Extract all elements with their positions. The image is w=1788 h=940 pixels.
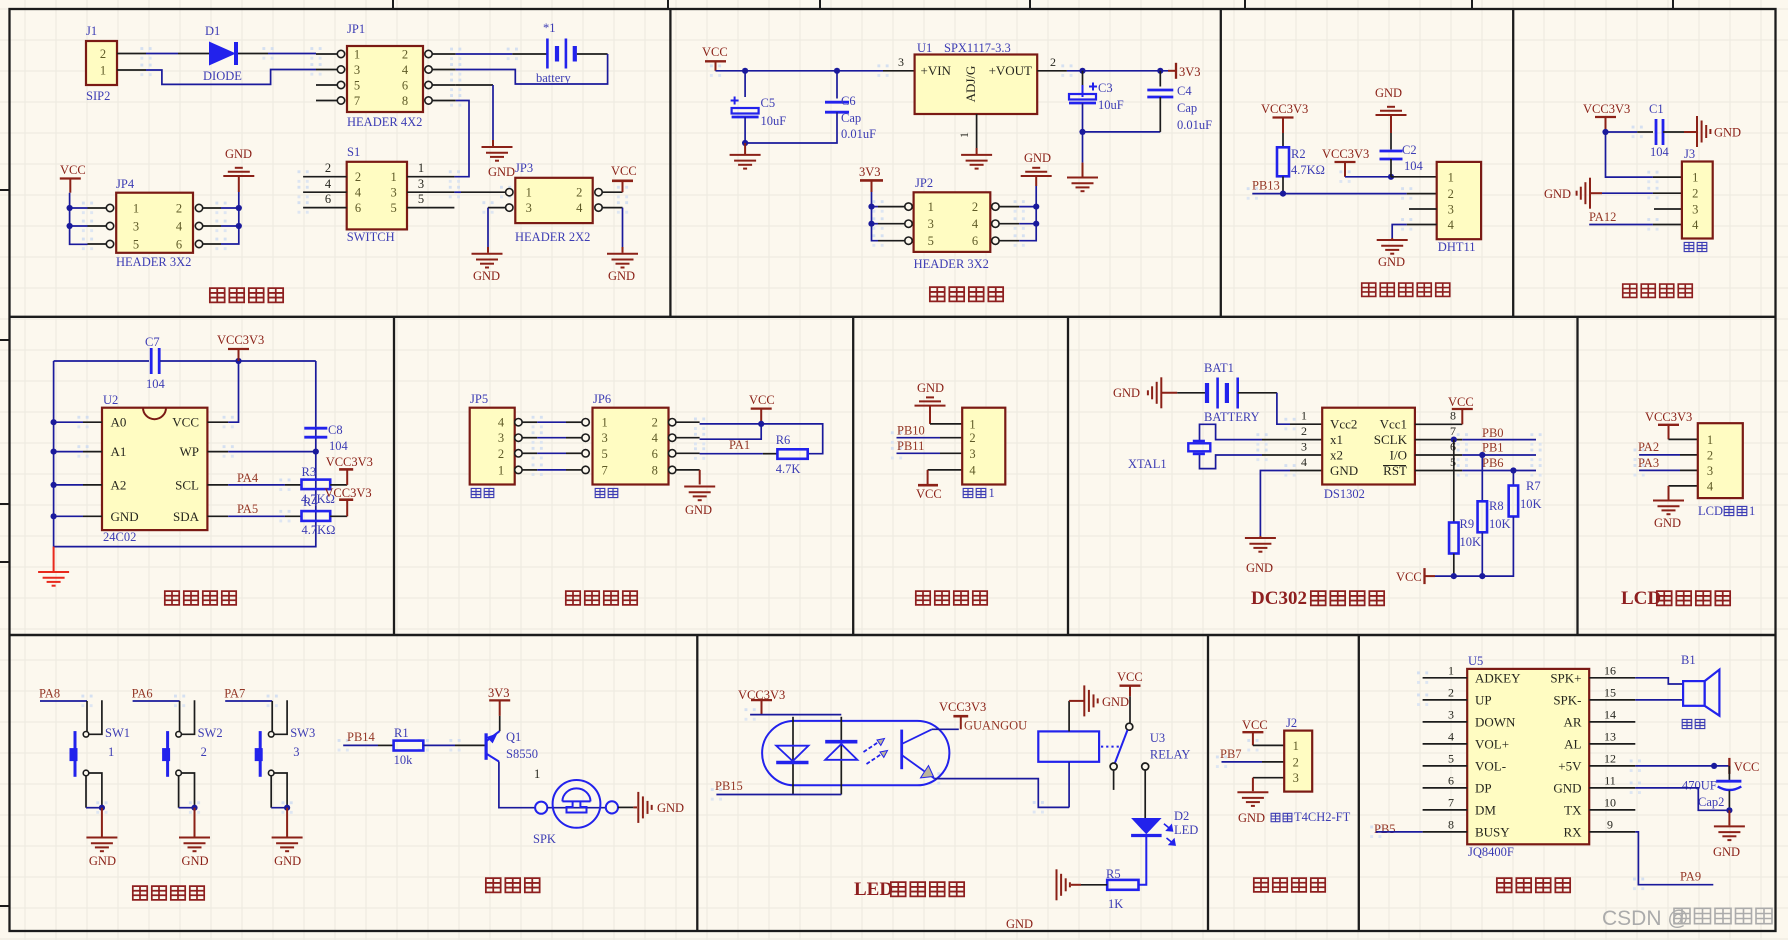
power 3V3 JP2 — [860, 180, 883, 192]
svg-text:3: 3 — [928, 217, 934, 231]
sheet border tick top — [667, 0, 669, 9]
svg-text:3: 3 — [601, 431, 607, 445]
wire C4 top — [1159, 71, 1161, 87]
svg-text:9: 9 — [1607, 817, 1613, 831]
svg-text:PB13: PB13 — [1252, 179, 1280, 193]
svg-text:DIODE: DIODE — [203, 69, 242, 83]
svg-text:RX: RX — [1563, 824, 1582, 839]
header JP1 left pin stubs — [316, 54, 337, 101]
svg-text:VCC3V3: VCC3V3 — [1583, 102, 1630, 116]
svg-text:x2: x2 — [1330, 447, 1343, 462]
wire PA3 LCD pin3 — [1639, 469, 1698, 471]
optocoupler diode 2 — [825, 742, 857, 760]
crystal XTAL1 — [1188, 441, 1210, 454]
svg-text:1: 1 — [498, 463, 504, 477]
module title 存储模块 — [165, 591, 236, 605]
resistor R1 — [394, 741, 424, 751]
optocoupler diode 1 — [776, 746, 808, 763]
svg-text:4: 4 — [1301, 455, 1307, 469]
switch SW3 pin1 lead — [274, 700, 287, 734]
svg-text:BATTERY: BATTERY — [1204, 410, 1260, 424]
svg-text:VCC3V3: VCC3V3 — [1322, 147, 1369, 161]
capacitor C4 — [1147, 90, 1173, 97]
power VCC JP6 — [751, 409, 772, 424]
svg-text:J3: J3 — [1684, 147, 1695, 161]
wire PA8 to switch — [40, 701, 87, 732]
wire right trunk — [54, 361, 316, 547]
wire LCD pin4 gnd — [1669, 486, 1698, 500]
switch SW1 pin2 lead — [89, 773, 102, 808]
led D2 — [1131, 818, 1162, 836]
svg-text:1: 1 — [1448, 170, 1454, 184]
junction SW2 — [191, 805, 197, 811]
svg-text:4: 4 — [576, 201, 583, 215]
relay U3 switch top contact — [1126, 723, 1133, 730]
svg-text:GND: GND — [1006, 917, 1033, 931]
power VCC relay — [1120, 686, 1141, 697]
resistor R7 — [1509, 486, 1519, 517]
svg-text:10K: 10K — [1520, 497, 1542, 511]
wire JP2.1 link — [872, 206, 879, 208]
svg-text:15: 15 — [1604, 685, 1616, 699]
svg-text:R3: R3 — [302, 465, 317, 479]
ground SW3 — [272, 838, 303, 852]
svg-text:PB7: PB7 — [1220, 747, 1242, 761]
connector J1 — [86, 41, 117, 85]
svg-text:2: 2 — [201, 745, 207, 759]
power VCC JP4 — [60, 179, 81, 193]
svg-text:+VOUT: +VOUT — [989, 63, 1032, 78]
svg-text:JP6: JP6 — [593, 392, 611, 406]
sheet border tick left — [0, 189, 10, 191]
wire LED to R5 — [1139, 836, 1147, 885]
svg-text:10uF: 10uF — [1098, 98, 1124, 112]
header JP5 circles — [515, 419, 522, 474]
svg-text:D1: D1 — [205, 24, 220, 38]
connector LCD pin numbers — [1707, 433, 1714, 494]
switch SW2 actuator — [162, 731, 170, 777]
svg-text:GND: GND — [1714, 126, 1741, 140]
ground BAT1 — [1148, 377, 1161, 408]
wire relay coil top gnd — [1068, 701, 1070, 732]
wire x2 stub — [1262, 454, 1322, 456]
wire cap2 bottom — [1728, 791, 1730, 811]
svg-text:GND: GND — [685, 503, 712, 517]
svg-text:VCC: VCC — [1396, 570, 1422, 584]
junction JP4 right 1 — [236, 205, 242, 211]
svg-text:4: 4 — [1692, 218, 1699, 232]
svg-text:4: 4 — [498, 416, 505, 430]
wire C3 gnd — [1082, 132, 1084, 177]
svg-text:4: 4 — [325, 177, 332, 191]
svg-text:SDA: SDA — [173, 509, 200, 524]
svg-text:SCL: SCL — [175, 477, 199, 492]
svg-text:DS1302: DS1302 — [1324, 487, 1365, 501]
svg-text:VOL+: VOL+ — [1475, 736, 1509, 751]
svg-text:2: 2 — [969, 431, 975, 445]
wire VCC rail tail — [1425, 575, 1436, 577]
svg-text:PB6: PB6 — [1482, 456, 1504, 470]
wire DHT pin1 stub — [1391, 176, 1437, 178]
capacitor C3 — [1069, 83, 1097, 104]
svg-text:2: 2 — [1448, 187, 1454, 201]
svg-text:4: 4 — [355, 186, 362, 200]
column divider r3b — [1207, 635, 1209, 931]
svg-text:WP: WP — [180, 444, 200, 459]
wire U2 WP pin — [207, 451, 315, 453]
svg-text:3V3: 3V3 — [859, 165, 881, 179]
svg-text:battery: battery — [536, 71, 571, 85]
wire JP4 right trunk — [221, 176, 239, 244]
wire J1.2 to D1 — [146, 53, 178, 55]
wire U1 VOUT stub — [1037, 70, 1067, 72]
svg-text:4: 4 — [1448, 729, 1454, 743]
header JP2 pin numbers — [928, 200, 979, 248]
wire R5 to gnd — [1071, 884, 1107, 886]
wire JP2.3 link — [872, 223, 879, 225]
svg-text:3: 3 — [418, 177, 424, 191]
svg-text:GND: GND — [1246, 561, 1273, 575]
svg-text:GUANGOU: GUANGOU — [964, 719, 1027, 733]
wire J1 pin2 stub — [117, 53, 146, 55]
svg-text:10K: 10K — [1489, 517, 1511, 531]
ground SW1 — [86, 838, 117, 852]
svg-text:DP: DP — [1475, 780, 1492, 795]
svg-text:PB0: PB0 — [1482, 426, 1504, 440]
header JP4 left circles — [106, 204, 113, 247]
switch S1 inner pin numbers — [355, 170, 397, 215]
svg-text:2: 2 — [100, 47, 106, 61]
svg-text:PB1: PB1 — [1482, 441, 1504, 455]
diode D1 — [209, 42, 236, 66]
svg-text:I/O: I/O — [1390, 447, 1407, 462]
svg-text:C4: C4 — [1177, 84, 1192, 98]
wire opto collector — [932, 728, 959, 730]
svg-text:2: 2 — [325, 161, 331, 175]
svg-text:PA9: PA9 — [1680, 870, 1701, 884]
regulator U1 pin names — [921, 63, 1033, 102]
connector J1 pin numbers — [100, 47, 106, 78]
svg-text:12: 12 — [1604, 751, 1616, 765]
wire SW3 to gnd — [271, 776, 287, 808]
header JP2 — [914, 192, 991, 252]
svg-text:GND: GND — [1713, 845, 1740, 859]
wire cap2 drop — [1728, 766, 1730, 781]
wire PB11 to BT pin3 — [897, 452, 963, 454]
wire JP6.8 gnd — [699, 470, 701, 485]
wire DHT gnd stem — [1391, 238, 1393, 239]
wire RX to PA9 — [1635, 832, 1713, 885]
power VCC voice — [1728, 758, 1730, 774]
ground C3 — [1067, 178, 1098, 192]
svg-text:GND: GND — [488, 165, 515, 179]
chip U5 right pin numbers — [1604, 663, 1616, 831]
wire C3 bottom — [1082, 103, 1084, 132]
wire R8 bottom — [1481, 533, 1483, 577]
capacitor C1 — [1656, 119, 1663, 145]
capacitor C2 — [1380, 151, 1403, 159]
svg-text:SW3: SW3 — [290, 726, 315, 740]
power VCC3V3 DHT — [1335, 162, 1356, 177]
junction gnd net — [1726, 807, 1732, 813]
svg-text:GND: GND — [274, 854, 301, 868]
wire GND pin net — [1635, 788, 1729, 810]
column divider r3c — [1358, 635, 1360, 931]
svg-text:3: 3 — [1448, 203, 1454, 217]
svg-text:GND: GND — [1553, 780, 1581, 795]
relay U3 linkage dots — [1101, 746, 1119, 748]
header JP2 left circles — [905, 203, 912, 244]
svg-text:R9: R9 — [1460, 517, 1475, 531]
wire SPK- to B1 — [1635, 699, 1683, 701]
header JP1 right pin circles — [425, 50, 432, 104]
wire relay coil bottom — [1068, 762, 1070, 808]
ground voice — [1714, 826, 1745, 840]
svg-text:13: 13 — [1604, 729, 1616, 743]
power 3V3 buck — [1175, 63, 1177, 79]
header JP1 right pin stubs — [432, 54, 456, 101]
ground J3 — [1577, 178, 1590, 209]
wire C2 top — [1390, 115, 1392, 150]
svg-text:U2: U2 — [103, 393, 118, 407]
svg-text:DOWN: DOWN — [1475, 714, 1516, 729]
svg-text:DHT11: DHT11 — [1438, 240, 1476, 254]
svg-text:4: 4 — [402, 63, 409, 77]
svg-text:1: 1 — [957, 132, 971, 138]
wire SPK internal — [547, 807, 606, 809]
optocoupler U4 body — [762, 721, 949, 785]
svg-text:1: 1 — [1749, 504, 1755, 518]
svg-text:HEADER 3X2: HEADER 3X2 — [116, 255, 191, 269]
power VCC3V3 R3 — [339, 469, 353, 485]
svg-text:GND: GND — [1375, 86, 1402, 100]
chip U2 notch — [143, 408, 166, 420]
svg-text:T4CH2-FT: T4CH2-FT — [1294, 810, 1351, 824]
wire opto emitter out — [935, 779, 1070, 808]
chip U5 right pin names — [1550, 670, 1582, 839]
power 3V3 Q1 — [489, 700, 510, 716]
wire relay gnd stem — [1069, 700, 1084, 702]
svg-text:XTAL1: XTAL1 — [1128, 457, 1167, 471]
wire JP1.2 to battery — [456, 53, 547, 55]
wire C1 to gnd — [1663, 131, 1696, 133]
svg-text:3V3: 3V3 — [1179, 65, 1201, 79]
svg-text:4: 4 — [652, 431, 659, 445]
module title 温湿度模块 — [1362, 283, 1450, 296]
svg-text:GND: GND — [1024, 151, 1051, 165]
power VCC J2 — [1242, 732, 1263, 745]
wire JP3.4 down — [622, 208, 624, 253]
wire JP6.2 net — [700, 424, 823, 454]
capacitor Cap2 — [1716, 781, 1741, 790]
transistor Q1 — [486, 731, 500, 761]
svg-text:SW1: SW1 — [105, 726, 130, 740]
svg-text:GND: GND — [182, 854, 209, 868]
svg-text:HEADER 4X2: HEADER 4X2 — [347, 115, 422, 129]
svg-text:2: 2 — [1301, 424, 1307, 438]
wire JP6.4 net — [700, 424, 762, 439]
wire SW1 gnd stem — [101, 808, 103, 837]
svg-text:VCC3V3: VCC3V3 — [217, 333, 264, 347]
svg-text:7: 7 — [1450, 424, 1456, 438]
column divider r1a — [669, 9, 671, 317]
capacitor C8 — [304, 428, 327, 437]
svg-text:VCC: VCC — [611, 164, 637, 178]
svg-text:3: 3 — [526, 201, 532, 215]
svg-text:24C02: 24C02 — [103, 530, 136, 544]
wires U2 left links — [54, 422, 83, 516]
svg-text:10uF: 10uF — [761, 114, 787, 128]
svg-text:JQ8400F: JQ8400F — [1468, 845, 1514, 859]
chip U5 left pin names — [1475, 670, 1521, 839]
sheet border tick left — [0, 905, 10, 907]
optocoupler phototransistor — [902, 729, 935, 778]
svg-text:VCC: VCC — [172, 415, 199, 430]
junction J3 vcc — [1602, 129, 1608, 135]
resistor R6 — [777, 449, 807, 459]
wire VCC3V3 to J3 pin1 — [1606, 132, 1653, 177]
ground JP2 right — [1021, 168, 1052, 176]
svg-text:PA4: PA4 — [237, 471, 259, 485]
header JP6 type label 心率 — [595, 488, 618, 497]
wire VCC to J2 pin1 — [1253, 744, 1284, 746]
svg-text:R1: R1 — [394, 726, 409, 740]
power VCC rail — [1423, 568, 1425, 584]
wire U1 gnd pin — [976, 114, 978, 155]
module title DC302时钟模块 — [1251, 588, 1384, 609]
ground DS1302 — [1245, 538, 1276, 552]
wire IO PB1 — [1415, 454, 1536, 456]
wire DHT pin4 stub — [1407, 224, 1437, 226]
svg-text:3: 3 — [293, 745, 299, 759]
resistor R8 — [1478, 501, 1488, 532]
wire JP1.8 to S1.1 — [454, 101, 469, 177]
sheet border tick top — [819, 0, 821, 9]
svg-text:C6: C6 — [841, 94, 856, 108]
junction JP2 left 2 — [868, 221, 874, 227]
svg-text:SPX1117-3.3: SPX1117-3.3 — [944, 41, 1011, 55]
wire SW1 to gnd — [86, 776, 102, 808]
junction R8 top — [1479, 452, 1485, 458]
sheet border tick top — [1471, 0, 1473, 9]
wire U1 VIN stub — [883, 70, 915, 72]
wire PB13 — [1252, 193, 1406, 195]
svg-text:1: 1 — [1692, 171, 1698, 185]
resistor R5 — [1107, 880, 1138, 890]
svg-text:5: 5 — [390, 201, 396, 215]
sheet border tick top — [1672, 0, 1674, 9]
svg-text:8: 8 — [1450, 409, 1456, 423]
header JP4 right stubs — [203, 208, 221, 244]
svg-text:VCC3V3: VCC3V3 — [326, 455, 373, 469]
svg-text:HEADER 3X2: HEADER 3X2 — [914, 257, 989, 271]
wire DHT11 pin2 stub — [1407, 193, 1437, 195]
svg-text:4.7KΩ: 4.7KΩ — [1291, 163, 1325, 177]
header JP1 — [347, 46, 423, 112]
svg-text:GND: GND — [111, 509, 139, 524]
svg-text:6: 6 — [325, 192, 331, 206]
svg-text:R2: R2 — [1291, 147, 1306, 161]
power VCC3V3 LCD — [1658, 425, 1679, 440]
svg-text:C2: C2 — [1402, 143, 1417, 157]
junction C6 top — [834, 68, 840, 74]
svg-text:6: 6 — [402, 79, 408, 93]
wire VCC to relay switch — [1129, 696, 1131, 723]
module title 降压模块 — [930, 287, 1003, 301]
svg-text:VCC: VCC — [702, 45, 728, 59]
junction JP2 left 1 — [868, 204, 874, 210]
svg-text:GND: GND — [225, 147, 252, 161]
wire DS1302 pin4 stub — [1290, 470, 1322, 472]
chip U2 — [102, 408, 207, 530]
svg-text:VCC: VCC — [1448, 395, 1474, 409]
svg-text:VCC: VCC — [1242, 718, 1268, 732]
wire C3 C4 bottom link — [1083, 131, 1161, 133]
wire C6 top — [836, 71, 838, 99]
junction rail R8 — [1479, 573, 1485, 579]
junction JP4 right 2 — [236, 223, 242, 229]
relay U3 switch arm — [1115, 730, 1128, 763]
ground C2 — [1376, 107, 1407, 115]
crystal XTAL1 wires top — [1200, 424, 1263, 441]
speaker B1 type label 喇叭 — [1682, 719, 1705, 728]
svg-text:HEADER 2X2: HEADER 2X2 — [515, 230, 590, 244]
wire PB7 to J2 pin2 — [1222, 761, 1285, 763]
switch S1 left stubs — [303, 177, 347, 208]
header JP6 left stubs — [566, 422, 582, 470]
svg-text:B1: B1 — [1681, 653, 1696, 667]
wires JP5 to JP6 — [537, 422, 566, 470]
wire x1 stub — [1262, 439, 1322, 441]
svg-text:1: 1 — [1707, 433, 1713, 447]
svg-text:1: 1 — [418, 161, 424, 175]
junction JP2 right 1 — [1033, 204, 1039, 210]
sheet border tick left — [0, 561, 10, 563]
svg-text:3: 3 — [969, 447, 975, 461]
svg-text:U5: U5 — [1468, 654, 1483, 668]
svg-text:GND: GND — [473, 269, 500, 283]
sheet border tick top — [392, 0, 394, 9]
switch SW1 bottom contact — [83, 770, 89, 776]
svg-text:VCC: VCC — [1734, 760, 1760, 774]
svg-text:ADJ/G: ADJ/G — [963, 66, 978, 103]
header JP5 — [470, 408, 515, 485]
svg-text:R8: R8 — [1489, 499, 1504, 513]
wire JP1.6 stub to gnd — [456, 85, 493, 146]
header JP6 — [593, 408, 669, 485]
relay U3 switch mid contact — [1110, 763, 1117, 770]
speaker B1 — [1683, 670, 1719, 716]
connector J2 — [1284, 731, 1312, 792]
chip DS1302 — [1322, 408, 1415, 485]
svg-text:6: 6 — [972, 234, 978, 248]
svg-text:SIP2: SIP2 — [86, 89, 110, 103]
wire R8 drop — [1481, 455, 1483, 501]
svg-text:5: 5 — [601, 447, 607, 461]
optocoupler led rail 1 — [792, 717, 794, 795]
svg-text:TX: TX — [1564, 802, 1582, 817]
header JP5 stubs — [522, 422, 537, 470]
svg-text:3: 3 — [390, 186, 396, 200]
power VCC3V3 J3 — [1595, 117, 1616, 132]
svg-text:JP2: JP2 — [915, 176, 933, 190]
header JP3 pin numbers — [526, 186, 584, 215]
resistor R2 — [1277, 147, 1289, 176]
connector BT — [962, 408, 1005, 485]
wire JP4.1 link — [70, 207, 88, 209]
svg-text:6: 6 — [176, 238, 182, 252]
power VCC DS1302 — [1452, 409, 1473, 424]
